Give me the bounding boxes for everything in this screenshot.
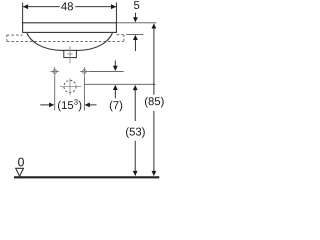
countertop level extension line (for 5) bbox=[126, 33, 143, 35]
siphon vertical centerline bbox=[69, 78, 71, 95]
floor line bbox=[14, 176, 159, 178]
dimension text (85) bbox=[145, 97, 164, 108]
dimension text 48 bbox=[61, 2, 73, 10]
closing paren of (15³) bbox=[78, 101, 81, 112]
tap-hole level extension line bbox=[89, 70, 124, 72]
dimension (53) floor to siphon level bbox=[133, 85, 138, 176]
bowl profile bbox=[27, 33, 113, 50]
countertop bottom edge dashed bbox=[7, 41, 124, 43]
dimension text (15 bbox=[58, 101, 73, 112]
dimension 48 (width) bbox=[23, 3, 117, 23]
superscript 3 bbox=[74, 99, 78, 105]
washbasin rim (front view) bbox=[23, 23, 117, 33]
extension line from left cross down to (15) dimension bbox=[54, 76, 56, 110]
dimension (15 sup 3) tap hole spacing bbox=[40, 103, 96, 108]
dimension (85) floor to rim top bbox=[152, 23, 157, 176]
siphon hole dashed circle bbox=[64, 80, 76, 92]
dimension text (53) bbox=[126, 127, 145, 138]
siphon level extension line bbox=[84, 83, 155, 85]
rim top extension line bbox=[116, 22, 156, 24]
drain axis centerline bbox=[69, 46, 71, 63]
extension line from right cross down to (15) dimension bbox=[83, 76, 85, 110]
countertop left end dashed bbox=[6, 35, 8, 42]
dimension (7) tap hole to siphon bbox=[113, 61, 118, 99]
left tap-hole cross bbox=[50, 67, 59, 76]
floor level triangle symbol bbox=[16, 168, 24, 176]
countertop right end dashed bbox=[122, 35, 125, 42]
right tap-hole cross bbox=[80, 67, 89, 76]
countertop top edge dashed left bbox=[7, 34, 23, 36]
siphon horizontal centerline bbox=[60, 86, 81, 88]
dimension text 5 bbox=[134, 1, 139, 9]
dimension text (7) bbox=[110, 101, 122, 112]
floor level text 0 bbox=[18, 158, 24, 167]
dimension 5 (rim above countertop) bbox=[133, 13, 138, 51]
drain cup bbox=[64, 50, 77, 57]
countertop top edge dashed right bbox=[117, 34, 124, 36]
